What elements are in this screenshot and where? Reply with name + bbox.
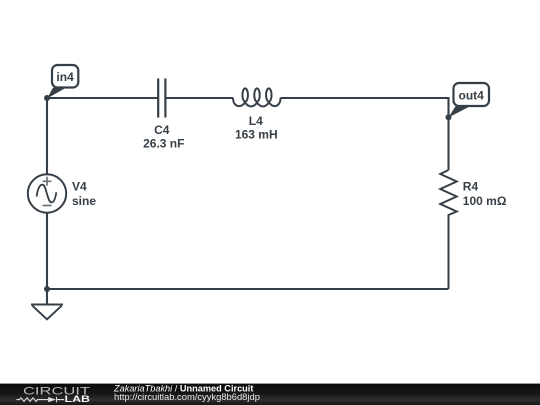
svg-text:C4: C4: [154, 123, 170, 137]
svg-text:V4: V4: [72, 180, 87, 194]
svg-text:out4: out4: [459, 88, 485, 102]
svg-text:163 mH: 163 mH: [235, 127, 278, 141]
svg-text:L4: L4: [249, 114, 263, 128]
svg-text:in4: in4: [56, 70, 74, 84]
svg-text:LAB: LAB: [65, 394, 91, 404]
svg-text:100 mΩ: 100 mΩ: [463, 194, 507, 208]
svg-text:http://circuitlab.com/cyykg8b6: http://circuitlab.com/cyykg8b6d8jdp: [114, 391, 260, 402]
svg-text:sine: sine: [72, 194, 96, 208]
svg-text:26.3 nF: 26.3 nF: [143, 137, 184, 151]
svg-text:R4: R4: [463, 180, 479, 194]
